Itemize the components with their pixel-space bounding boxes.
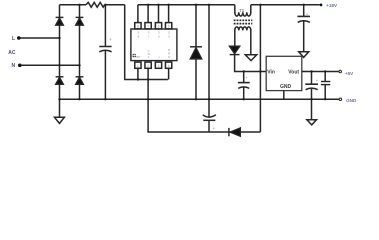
IC pad top 1 bbox=[135, 23, 141, 29]
svg-text:+: + bbox=[306, 11, 309, 16]
IC pin numbers bottom bbox=[137, 64, 170, 68]
svg-text:GND: GND bbox=[346, 98, 357, 103]
wire clamp loop bbox=[148, 99, 260, 132]
wire L to bridge bbox=[20, 37, 60, 39]
svg-text:1: 1 bbox=[137, 64, 139, 68]
wire pin8 drop bbox=[137, 5, 139, 23]
diode D1d bottom-right bbox=[76, 77, 84, 85]
svg-text:6: 6 bbox=[158, 25, 160, 29]
capacitor C2 clamp bbox=[208, 5, 210, 118]
wire bottom ground rail bbox=[60, 98, 340, 100]
svg-text:T1: T1 bbox=[239, 8, 245, 13]
svg-text:6: 6 bbox=[158, 35, 160, 39]
svg-text:7: 7 bbox=[147, 25, 149, 29]
transformer T1 primary bbox=[234, 5, 236, 13]
svg-text:8: 8 bbox=[137, 25, 139, 29]
svg-text:GND: GND bbox=[280, 84, 292, 90]
wire IC top pin rail 2 bbox=[138, 4, 235, 6]
wire pin7 drop bbox=[147, 5, 149, 23]
wire pin6 drop bbox=[158, 5, 160, 23]
node +5V terminal bbox=[339, 70, 342, 73]
capacitor C1 bulk bbox=[104, 5, 106, 47]
wire Vout to +5V bbox=[302, 71, 339, 73]
diode D1b top-right bbox=[76, 17, 84, 25]
svg-text:5: 5 bbox=[168, 35, 170, 39]
diode D1a top-left bbox=[56, 17, 64, 25]
svg-text:+18V: +18V bbox=[326, 3, 338, 8]
op IC U1 body bbox=[131, 29, 177, 61]
svg-text:N: N bbox=[168, 55, 170, 59]
ground symbol left bbox=[55, 117, 65, 123]
capacitor C5 output electrolytic bbox=[311, 72, 313, 85]
wire long vertical from rail1 to IC source wire bbox=[125, 5, 168, 80]
svg-text:2: 2 bbox=[147, 64, 149, 68]
ground symbol output bbox=[307, 120, 317, 125]
svg-text:L: L bbox=[12, 36, 15, 42]
node +18V terminal bbox=[320, 4, 323, 7]
svg-text:BP: BP bbox=[136, 55, 140, 59]
svg-text:7: 7 bbox=[148, 35, 150, 39]
wire regulator gnd pin bbox=[283, 91, 285, 100]
IC pad top 3 bbox=[155, 23, 161, 29]
ground symbol C4 bbox=[299, 52, 309, 58]
svg-text:+: + bbox=[245, 75, 248, 80]
wire secondary to Vin bbox=[235, 55, 267, 72]
wire pin5 drop bbox=[168, 5, 170, 23]
wire C5 gnd stub bbox=[311, 99, 313, 119]
regulator U2 bbox=[266, 56, 302, 90]
wire loop right vertical bbox=[259, 5, 261, 132]
capacitor C3 vin bbox=[243, 72, 245, 83]
svg-text:+: + bbox=[213, 125, 216, 130]
svg-text:Vout: Vout bbox=[288, 70, 299, 76]
wire bridge left leg bbox=[59, 5, 61, 99]
wire ground stub left bbox=[59, 99, 61, 117]
IC pad bottom 2 bbox=[145, 62, 151, 68]
svg-text:+: + bbox=[316, 77, 319, 82]
diode D1c bottom-left bbox=[56, 77, 64, 85]
IC pad bottom 1 bbox=[135, 62, 141, 68]
svg-text:8: 8 bbox=[138, 35, 140, 39]
wire N to bridge bbox=[21, 64, 80, 66]
node L terminal bbox=[17, 36, 21, 40]
transformer T1 secondary bbox=[235, 27, 251, 30]
IC pin names top bbox=[137, 31, 170, 39]
svg-text:AC: AC bbox=[8, 50, 16, 56]
wire pad1 bottom stub bbox=[137, 68, 139, 79]
wire pad4 bottom stub bbox=[168, 68, 170, 79]
diode D4 clamp bbox=[195, 5, 197, 47]
node N terminal bbox=[18, 64, 22, 68]
capacitor C6 output ceramic bbox=[324, 72, 326, 82]
svg-text:4: 4 bbox=[168, 64, 170, 68]
svg-text:+: + bbox=[109, 36, 112, 41]
svg-text:y: y bbox=[158, 55, 160, 59]
svg-text:5: 5 bbox=[168, 25, 170, 29]
transformer T1 core bbox=[234, 19, 253, 21]
IC pad top 2 bbox=[145, 23, 151, 29]
node GND terminal bbox=[339, 98, 342, 101]
wire bridge right leg bbox=[79, 5, 81, 99]
IC pin numbers top bbox=[137, 25, 170, 29]
wire rail 3 to +18V bbox=[251, 4, 320, 6]
IC pad bottom 4 bbox=[165, 62, 171, 68]
diode D5 on loop bbox=[229, 128, 240, 136]
wire top rail 1b after resistor bbox=[105, 4, 125, 6]
svg-text:3: 3 bbox=[158, 64, 160, 68]
IC pin names bottom bbox=[136, 48, 171, 59]
resistor R1 bbox=[86, 2, 105, 7]
IC pin1 marker bbox=[132, 54, 136, 58]
capacitor C4 18V bbox=[303, 5, 305, 17]
ground symbol secondary bbox=[245, 55, 256, 61]
svg-text:Vin: Vin bbox=[267, 70, 275, 76]
wire pad2 bottom to gnd rail bbox=[147, 68, 149, 99]
IC pad top 4 bbox=[165, 23, 171, 29]
diode D2 output bbox=[230, 46, 240, 54]
wire top rail 1 bbox=[60, 4, 87, 6]
IC pad bottom 3 bbox=[155, 62, 161, 68]
svg-text:+5V: +5V bbox=[345, 71, 354, 76]
svg-text:N: N bbox=[12, 63, 16, 69]
